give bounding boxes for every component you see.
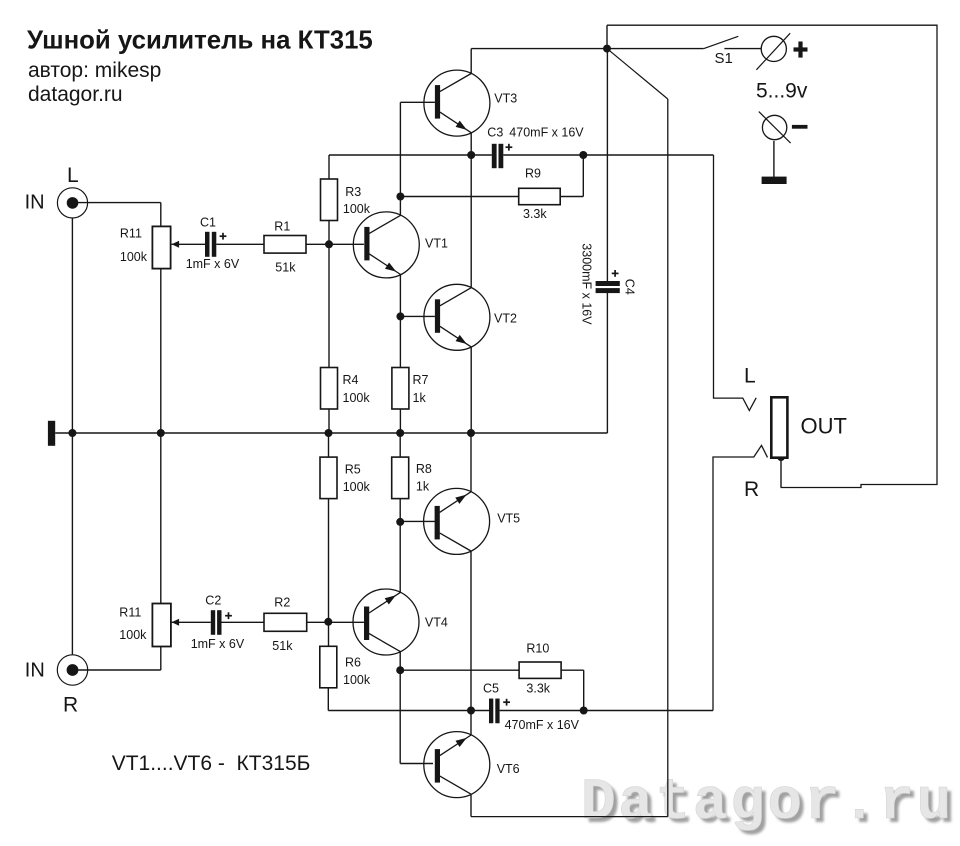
svg-text:3.3k: 3.3k bbox=[526, 682, 550, 696]
svg-text:VT1: VT1 bbox=[425, 237, 448, 251]
svg-text:VT3: VT3 bbox=[494, 92, 517, 106]
svg-text:1mF x 6V: 1mF x 6V bbox=[186, 257, 240, 271]
svg-text:VT5: VT5 bbox=[497, 511, 520, 525]
svg-text:1k: 1k bbox=[416, 479, 430, 493]
svg-text:R6: R6 bbox=[345, 656, 361, 670]
svg-text:100k: 100k bbox=[343, 391, 371, 405]
svg-text:470mF x 16V: 470mF x 16V bbox=[509, 126, 584, 140]
svg-text:R5: R5 bbox=[345, 462, 361, 476]
svg-text:Datagor.ru: Datagor.ru bbox=[581, 771, 954, 836]
svg-text:C2: C2 bbox=[205, 594, 221, 608]
svg-text:C1: C1 bbox=[200, 215, 216, 229]
svg-text:Ушной усилитель на КТ315: Ушной усилитель на КТ315 bbox=[27, 27, 373, 55]
svg-text:R: R bbox=[63, 693, 78, 716]
svg-text:100k: 100k bbox=[120, 250, 148, 264]
svg-text:100k: 100k bbox=[343, 480, 371, 494]
svg-text:VT4: VT4 bbox=[425, 615, 448, 629]
svg-text:R: R bbox=[744, 478, 759, 501]
svg-text:51k: 51k bbox=[272, 639, 293, 653]
svg-text:R4: R4 bbox=[343, 373, 359, 387]
svg-text:R11: R11 bbox=[120, 226, 142, 240]
svg-text:R1: R1 bbox=[274, 220, 290, 234]
svg-text:R8: R8 bbox=[416, 462, 432, 476]
svg-text:R9: R9 bbox=[525, 166, 541, 180]
svg-text:L: L bbox=[744, 364, 756, 387]
svg-text:R7: R7 bbox=[413, 373, 429, 387]
svg-text:1k: 1k bbox=[413, 391, 427, 405]
svg-text:R11: R11 bbox=[119, 606, 141, 620]
svg-text:470mF x 16V: 470mF x 16V bbox=[505, 718, 580, 732]
svg-text:автор: mikesp: автор: mikesp bbox=[28, 59, 161, 82]
svg-text:IN: IN bbox=[25, 659, 45, 681]
svg-text:IN: IN bbox=[25, 191, 45, 213]
svg-text:C5: C5 bbox=[483, 682, 499, 696]
svg-text:R2: R2 bbox=[274, 596, 290, 610]
svg-text:VT2: VT2 bbox=[494, 312, 517, 326]
svg-text:VT1....VT6 - КТ315Б: VT1....VT6 - КТ315Б bbox=[112, 752, 311, 775]
svg-text:VT6: VT6 bbox=[497, 762, 520, 776]
svg-text:100k: 100k bbox=[119, 628, 147, 642]
svg-text:1mF x 6V: 1mF x 6V bbox=[191, 637, 245, 651]
svg-text:3300mF x 16V: 3300mF x 16V bbox=[580, 243, 594, 325]
svg-text:C3: C3 bbox=[487, 126, 503, 140]
svg-text:100k: 100k bbox=[343, 673, 371, 687]
svg-text:datagor.ru: datagor.ru bbox=[28, 83, 123, 106]
svg-text:100k: 100k bbox=[343, 202, 371, 216]
svg-text:5...9v: 5...9v bbox=[756, 79, 808, 102]
svg-text:C4: C4 bbox=[623, 279, 637, 295]
svg-text:R10: R10 bbox=[526, 642, 549, 656]
svg-text:R3: R3 bbox=[345, 185, 361, 199]
svg-text:L: L bbox=[67, 164, 79, 187]
svg-text:3.3k: 3.3k bbox=[523, 207, 547, 221]
svg-text:S1: S1 bbox=[715, 50, 733, 67]
svg-text:51k: 51k bbox=[275, 261, 296, 275]
svg-text:OUT: OUT bbox=[801, 413, 847, 438]
